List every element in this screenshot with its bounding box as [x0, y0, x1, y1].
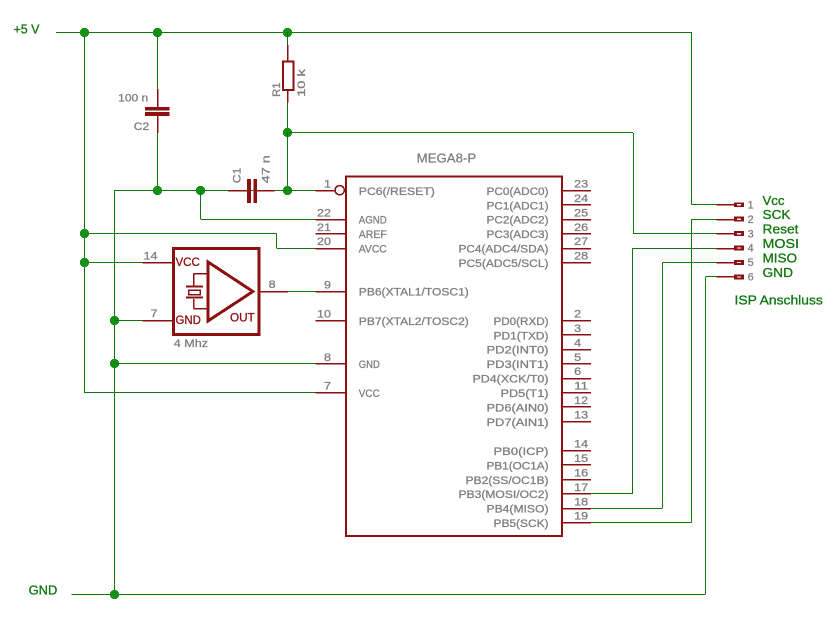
svg-text:PD4(XCK/T0): PD4(XCK/T0) [473, 374, 549, 386]
svg-text:15: 15 [574, 453, 588, 465]
wire R1 column to net line [287, 133, 289, 190]
svg-text:4: 4 [748, 243, 754, 255]
svg-text:26: 26 [574, 222, 588, 234]
svg-text:PB7(XTAL2/TOSC2): PB7(XTAL2/TOSC2) [359, 316, 469, 328]
ISP connector pin 5 MISO [717, 251, 798, 270]
svg-text:C1: C1 [232, 168, 244, 184]
svg-text:PD7(AIN1): PD7(AIN1) [487, 417, 549, 429]
svg-text:PD5(T1): PD5(T1) [501, 388, 549, 400]
wire GND to IC pin 8 [114, 363, 315, 365]
svg-text:PD3(INT1): PD3(INT1) [487, 359, 549, 371]
junction left column / osc VCC [80, 258, 89, 267]
svg-text:PB2(SS/OC1B): PB2(SS/OC1B) [466, 475, 549, 487]
svg-text:23: 23 [574, 178, 588, 190]
IC pin 6 PD4(XCK/T0) [473, 366, 592, 385]
svg-text:PB4(MISO): PB4(MISO) [487, 504, 549, 516]
wire oscillator OUT to IC PB6 pin 9 [288, 291, 316, 293]
svg-text:C2: C2 [134, 121, 149, 133]
svg-text:MISO: MISO [763, 251, 798, 266]
svg-text:16: 16 [574, 467, 588, 479]
svg-text:10: 10 [317, 308, 331, 320]
IC pin 20 AVCC [316, 236, 387, 255]
label C2 [134, 121, 149, 133]
svg-text:PC0(ADC0): PC0(ADC0) [487, 186, 549, 198]
wire GND to oscillator GND pin 7 [114, 320, 142, 322]
svg-text:24: 24 [574, 193, 588, 205]
svg-text:VCC: VCC [359, 388, 380, 400]
svg-text:18: 18 [574, 496, 588, 508]
svg-text:GND: GND [29, 582, 58, 597]
svg-text:8: 8 [324, 352, 331, 364]
resistor R1 10k [283, 45, 294, 103]
wire MISO net PB4 to ISP pin 5 [591, 263, 716, 509]
svg-text:13: 13 [574, 410, 588, 422]
IC pin 21 AREF [316, 222, 387, 241]
junction +5V / R1 column [283, 28, 292, 37]
svg-text:PC2(ADC2): PC2(ADC2) [487, 215, 549, 227]
svg-text:AREF: AREF [359, 229, 387, 241]
junction left column / IC GND row [110, 359, 119, 368]
ISP connector pin 4 MOSI [717, 236, 800, 255]
svg-text:OUT: OUT [230, 311, 255, 325]
IC pin 18 PB4(MISO) [487, 496, 592, 515]
IC pin 15 PB1(OC1A) [487, 453, 592, 472]
svg-text:28: 28 [574, 251, 588, 263]
junction +5V / left column [80, 28, 89, 37]
svg-text:PB1(OC1A): PB1(OC1A) [487, 460, 549, 472]
IC pin 17 PB3(MOSI/OC2) [459, 482, 592, 501]
svg-text:Reset: Reset [763, 222, 799, 237]
wire AGND branch [201, 190, 316, 219]
svg-text:GND: GND [176, 313, 201, 327]
svg-text:PD6(AIN0): PD6(AIN0) [487, 403, 549, 415]
svg-text:AVCC: AVCC [359, 244, 387, 256]
IC pin 4 PD2(INT0) [487, 337, 592, 356]
oscillator label OUT [230, 311, 255, 325]
ISP connector pin 1 Vcc [717, 193, 785, 212]
junction net / C2 bottom [153, 186, 162, 195]
svg-text:14: 14 [574, 439, 588, 451]
IC pin 1 PC6(/RESET) [316, 178, 435, 197]
svg-text:R1: R1 [271, 83, 283, 97]
svg-text:+5 V: +5 V [14, 22, 40, 37]
wire C1 left (green part) [201, 190, 228, 192]
wire MOSI net PB3 to ISP pin 4 [591, 248, 716, 494]
svg-text:PB3(MOSI/OC2): PB3(MOSI/OC2) [459, 489, 549, 501]
IC pin 3 PD1(TXD) [494, 323, 592, 342]
wire AVCC net [84, 233, 315, 248]
oscillator label VCC [176, 255, 201, 269]
svg-text:5: 5 [574, 352, 581, 364]
junction R1 bottom / RESET branch [283, 128, 292, 137]
wire +5V down-left column to VCC pin 7 row [84, 32, 315, 392]
wire RESET net to ISP pin 3 [287, 133, 716, 234]
svg-text:ISP Anschluss: ISP Anschluss [735, 292, 824, 307]
IC pin 22 AGND [316, 207, 387, 226]
svg-text:22: 22 [317, 207, 331, 219]
svg-text:3: 3 [748, 228, 754, 240]
svg-text:6: 6 [748, 272, 754, 284]
svg-text:14: 14 [144, 250, 158, 262]
svg-text:PC1(ADC1): PC1(ADC1) [487, 200, 549, 212]
ISP connector pin 3 Reset [717, 222, 799, 241]
value 10 k [296, 69, 308, 97]
svg-text:MEGA8-P: MEGA8-P [417, 150, 477, 165]
wire +5V rail [56, 32, 692, 34]
IC pin 26 PC3(ADC3) [487, 222, 592, 241]
oscillator pin 8 OUT [259, 279, 288, 291]
svg-text:PB5(SCK): PB5(SCK) [494, 518, 549, 530]
IC pin 19 PB5(SCK) [494, 511, 592, 530]
IC pin 14 PB0(ICP) [494, 439, 592, 458]
svg-text:25: 25 [574, 207, 588, 219]
svg-text:VCC: VCC [176, 255, 201, 269]
svg-text:4: 4 [574, 337, 581, 349]
wire R1 column lower (green part) [287, 103, 289, 133]
label C1 [232, 168, 244, 184]
svg-text:PC4(ADC4/SDA): PC4(ADC4/SDA) [459, 244, 549, 256]
svg-text:19: 19 [574, 511, 588, 523]
value 47 n [260, 155, 272, 183]
IC pin 25 PC2(ADC2) [487, 207, 592, 226]
svg-text:11: 11 [574, 381, 588, 393]
IC pin 27 PC4(ADC4/SDA) [459, 236, 592, 255]
svg-text:4 Mhz: 4 Mhz [174, 338, 209, 350]
svg-text:10 k: 10 k [296, 69, 308, 97]
svg-text:1: 1 [748, 199, 754, 211]
capacitor C1 47n [228, 179, 274, 203]
IC pin 10 PB7(XTAL2/TOSC2) [316, 308, 469, 327]
junction left column / oscillator GND row [110, 316, 119, 325]
IC U1 MEGA8-P body [346, 177, 562, 537]
svg-text:MOSI: MOSI [763, 236, 800, 251]
junction left column / AVCC net [80, 229, 89, 238]
wire GND bottom rail [72, 277, 717, 595]
svg-text:7: 7 [324, 381, 331, 393]
IC pin 16 PB2(SS/OC1B) [466, 467, 592, 486]
oscillator crystal symbol [186, 273, 208, 308]
svg-text:2: 2 [748, 214, 754, 226]
wire C1 right (green part) [274, 190, 315, 192]
svg-text:PD1(TXD): PD1(TXD) [494, 330, 549, 342]
oscillator label GND [176, 313, 201, 327]
value 100 n [118, 92, 148, 104]
IC pin 8 GND [316, 352, 380, 371]
wire R1 column upper (green part) [287, 32, 289, 45]
svg-text:SCK: SCK [763, 207, 791, 222]
svg-text:Vcc: Vcc [763, 193, 785, 208]
svg-text:3: 3 [574, 323, 581, 335]
svg-text:9: 9 [324, 279, 331, 291]
oscillator Q1 body [173, 249, 258, 335]
wire C2 column upper (green part) [157, 32, 159, 89]
svg-text:47 n: 47 n [260, 155, 272, 183]
IC pin 5 PD3(INT1) [487, 352, 592, 371]
junction net / R1 column [283, 186, 292, 195]
junction +5V / C2 column [153, 28, 162, 37]
svg-text:PC3(ADC3): PC3(ADC3) [487, 229, 549, 241]
svg-text:17: 17 [574, 482, 588, 494]
svg-text:7: 7 [151, 308, 158, 320]
IC pin 13 PD7(AIN1) [487, 410, 592, 429]
svg-text:6: 6 [574, 366, 581, 378]
svg-text:27: 27 [574, 236, 588, 248]
svg-text:12: 12 [574, 395, 588, 407]
wire SCK net PB5 to ISP pin 2 [591, 219, 716, 522]
svg-text:1: 1 [324, 178, 331, 190]
IC pin 28 PC5(ADC5/SCL) [459, 251, 592, 270]
svg-text:PB0(ICP): PB0(ICP) [494, 446, 549, 458]
capacitor C2 [145, 89, 169, 133]
wire ISP Vcc from +5V [692, 32, 717, 205]
label ISP Anschluss [735, 292, 824, 307]
junction GND rail / left column [110, 590, 119, 599]
svg-text:2: 2 [574, 308, 581, 320]
value 4 Mhz [174, 338, 209, 350]
ISP connector pin 2 SCK [717, 207, 791, 226]
IC name MEGA8-P [417, 150, 477, 165]
IC pin 9 PB6(XTAL1/TOSC1) [316, 279, 469, 298]
svg-text:PD2(INT0): PD2(INT0) [487, 345, 549, 357]
svg-text:PC6(/RESET): PC6(/RESET) [359, 186, 435, 198]
svg-text:AGND: AGND [359, 215, 387, 227]
ISP connector pin 6 GND [717, 265, 794, 284]
IC pin 23 PC0(ADC0) [487, 178, 592, 197]
wire +5V to oscillator VCC pin 14 [84, 262, 142, 264]
svg-text:21: 21 [317, 222, 331, 234]
wire horizontal net at pin PC6 row [114, 190, 315, 192]
power label +5 V [14, 22, 40, 37]
wire left column x=114 down to GND rail [114, 190, 116, 594]
IC pin 24 PC1(ADC1) [487, 193, 592, 212]
svg-text:100 n: 100 n [118, 92, 148, 104]
power label GND [29, 582, 58, 597]
svg-text:GND: GND [763, 265, 794, 280]
svg-text:GND: GND [359, 359, 380, 371]
label R1 [271, 83, 283, 97]
junction net / AGND branch [196, 186, 205, 195]
svg-text:5: 5 [748, 257, 754, 269]
wire C2 column lower (green part) [157, 133, 159, 190]
svg-text:8: 8 [269, 279, 276, 291]
svg-text:20: 20 [317, 236, 331, 248]
oscillator pin 14 VCC [143, 250, 174, 262]
svg-text:PD0(RXD): PD0(RXD) [494, 316, 549, 328]
IC pin 12 PD6(AIN0) [487, 395, 592, 414]
oscillator pin 7 GND [143, 308, 174, 320]
oscillator buffer triangle [208, 262, 253, 321]
IC pin 7 VCC [316, 381, 380, 400]
svg-text:PB6(XTAL1/TOSC1): PB6(XTAL1/TOSC1) [359, 287, 469, 299]
IC pin 11 PD5(T1) [501, 381, 592, 400]
svg-text:PC5(ADC5/SCL): PC5(ADC5/SCL) [459, 258, 549, 270]
IC pin 2 PD0(RXD) [494, 308, 592, 327]
